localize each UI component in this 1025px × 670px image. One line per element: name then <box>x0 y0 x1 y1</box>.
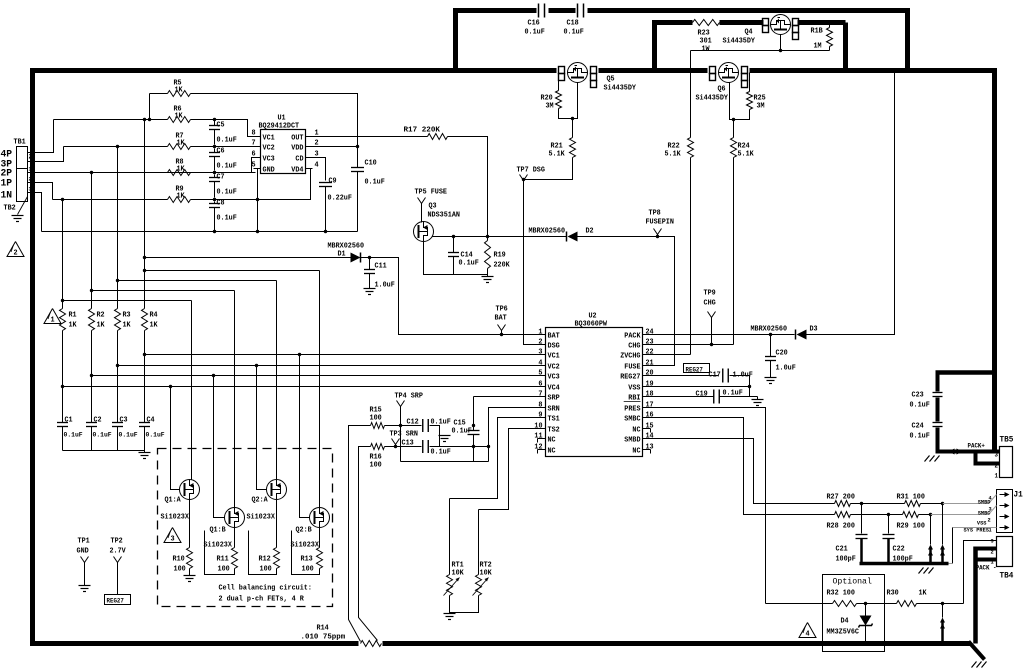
capacitor C2 <box>91 376 93 423</box>
transistor Q5 <box>568 63 588 83</box>
svg-text:SMBD: SMBD <box>978 499 991 506</box>
svg-text:Si1023X: Si1023X <box>247 514 276 522</box>
wire 1N <box>28 193 42 232</box>
svg-text:2: 2 <box>13 250 17 258</box>
svg-text:TS2: TS2 <box>548 427 560 435</box>
wire bus2 <box>91 173 93 309</box>
svg-text:NDS351AN: NDS351AN <box>428 212 461 220</box>
transistor Q1:A <box>180 480 200 500</box>
svg-text:Si1023X: Si1023X <box>161 514 190 522</box>
wire R29 drop <box>930 515 932 545</box>
svg-text:REG27: REG27 <box>107 598 125 605</box>
wire SRN to pin8 <box>489 408 538 462</box>
svg-text:R1B: R1B <box>811 28 824 36</box>
resistor R21 <box>572 119 574 138</box>
svg-text:TS1: TS1 <box>548 416 560 424</box>
capacitor C18 <box>577 4 579 18</box>
wire Q4 gate <box>780 35 782 51</box>
wire SMBD net <box>651 439 835 504</box>
svg-text:3: 3 <box>29 187 32 193</box>
pin 24 PACK <box>643 334 651 336</box>
capacitor C24 <box>933 422 943 424</box>
svg-text:CD: CD <box>295 156 303 164</box>
svg-text:0.1uF: 0.1uF <box>525 29 545 37</box>
svg-text:C9: C9 <box>329 178 337 186</box>
pin 8 <box>254 136 261 138</box>
svg-text:SMBD: SMBD <box>624 437 640 445</box>
wire VC3 row <box>92 331 538 376</box>
ground R10 <box>189 569 191 576</box>
pin 6 <box>254 157 261 159</box>
svg-text:BQ29412DCT: BQ29412DCT <box>259 123 300 131</box>
svg-text:0.22uF: 0.22uF <box>328 195 352 203</box>
wire R30 to SYS PRES <box>917 603 964 605</box>
svg-text:REG27: REG27 <box>620 374 640 382</box>
svg-text:R14: R14 <box>317 625 329 633</box>
svg-text:R32 100: R32 100 <box>827 590 855 598</box>
svg-text:0.1uF: 0.1uF <box>93 432 112 439</box>
svg-text:C18: C18 <box>567 20 579 28</box>
svg-text:TP5 FUSE: TP5 FUSE <box>415 189 448 197</box>
resistor R31 <box>905 501 921 507</box>
svg-text:MBRX02560: MBRX02560 <box>751 326 788 334</box>
svg-text:TP9: TP9 <box>704 290 716 298</box>
wire R13 return <box>292 531 320 575</box>
wire balance tap Q1B source <box>92 290 235 292</box>
svg-text:RT2: RT2 <box>480 562 492 570</box>
wire U1 VDD <box>306 146 358 148</box>
pin 13 NC <box>643 449 651 451</box>
capacitor C6 <box>214 149 216 153</box>
resistor R20 <box>558 73 560 91</box>
wire VC1 row <box>145 331 538 355</box>
svg-text:5.1K: 5.1K <box>738 151 755 159</box>
svg-text:C8: C8 <box>217 200 225 208</box>
resistor R13 <box>319 528 321 548</box>
svg-text:ZVCHG: ZVCHG <box>620 353 640 361</box>
ground chassis PACK- <box>972 662 977 668</box>
svg-text:SMBC: SMBC <box>978 510 991 517</box>
resistor R12 <box>276 500 278 548</box>
wire gate tap Q1B <box>214 376 225 518</box>
pin 7 SRP <box>538 396 546 398</box>
svg-text:NC: NC <box>548 437 556 445</box>
pin 21 FUSE <box>643 365 651 367</box>
svg-text:C21: C21 <box>836 546 848 554</box>
resistor R3 <box>115 309 121 331</box>
svg-text:0.1uF: 0.1uF <box>119 432 138 439</box>
svg-text:Optional: Optional <box>833 577 872 587</box>
svg-text:Si4435DY: Si4435DY <box>696 95 729 103</box>
svg-text:.010 75ppm: .010 75ppm <box>301 634 346 642</box>
svg-text:TP3 SRN: TP3 SRN <box>390 431 418 439</box>
pin 20 REG27 <box>643 375 651 377</box>
pin 15 NC <box>643 428 651 430</box>
transistor Q2:B <box>310 508 330 528</box>
terminal block TB4 <box>997 537 1013 567</box>
ground REG27 filter <box>752 399 764 401</box>
pin 14 SMBD <box>643 438 651 440</box>
svg-text:1: 1 <box>538 329 542 337</box>
svg-text:BAT: BAT <box>495 315 507 323</box>
resistor R24 <box>733 120 735 138</box>
svg-text:1K: 1K <box>177 166 186 174</box>
capacitor C5 <box>214 120 216 126</box>
wire gate tap Q2B <box>300 355 310 518</box>
svg-text:Si4435DY: Si4435DY <box>723 38 756 46</box>
svg-text:5.1K: 5.1K <box>665 151 682 159</box>
svg-text:VD4: VD4 <box>291 167 303 175</box>
svg-text:4: 4 <box>805 631 809 639</box>
wire REG27 row <box>651 375 719 377</box>
terminal block TB2 <box>17 169 28 202</box>
capacitor C4 <box>144 355 146 423</box>
capacitor C9 <box>319 182 332 184</box>
resistor R10 <box>189 500 191 548</box>
svg-text:VC2: VC2 <box>263 145 275 153</box>
thermistor RT1 <box>449 499 451 575</box>
svg-text:1: 1 <box>995 473 999 480</box>
svg-text:2 dual p-ch FETs, 4 R: 2 dual p-ch FETs, 4 R <box>219 596 305 604</box>
svg-text:R10: R10 <box>173 556 185 564</box>
svg-text:C14: C14 <box>461 252 473 260</box>
resistor R2 <box>89 309 95 331</box>
wire R5 output <box>191 94 358 147</box>
wire TS2 <box>479 429 538 510</box>
pin 17 PRES <box>643 407 651 409</box>
svg-text:100: 100 <box>370 462 382 470</box>
svg-text:TP6: TP6 <box>496 306 508 314</box>
svg-text:R2: R2 <box>97 312 105 320</box>
svg-text:0.1uF: 0.1uF <box>217 215 237 223</box>
svg-text:1M: 1M <box>814 43 822 51</box>
svg-text:3: 3 <box>995 452 999 459</box>
optional box <box>823 575 885 652</box>
pin 8 SRN <box>538 407 546 409</box>
svg-text:TB2: TB2 <box>4 205 16 213</box>
wire NC12 stub <box>537 450 539 454</box>
svg-text:0.1uF: 0.1uF <box>365 179 385 187</box>
svg-text:100: 100 <box>370 415 382 423</box>
pin 1 <box>306 136 313 138</box>
svg-text:0.1uF: 0.1uF <box>217 137 237 145</box>
pin 7 <box>254 146 261 148</box>
svg-text:TB4: TB4 <box>1000 572 1014 581</box>
capacitor C14 <box>453 237 455 253</box>
svg-text:TB1: TB1 <box>14 139 26 147</box>
svg-text:Q5: Q5 <box>607 76 615 84</box>
svg-text:C1: C1 <box>65 417 73 425</box>
pin 3 VC1 <box>538 354 546 356</box>
svg-text:3M: 3M <box>546 103 554 111</box>
resistor R22 <box>690 51 692 138</box>
svg-text:7: 7 <box>538 391 542 399</box>
svg-text:3: 3 <box>538 349 542 357</box>
resistor R8 <box>168 170 191 176</box>
svg-text:8: 8 <box>252 130 256 138</box>
pin 11 NC <box>538 438 546 440</box>
pin 6 VC4 <box>538 386 546 388</box>
svg-text:R25: R25 <box>754 95 766 103</box>
svg-text:R24: R24 <box>738 143 750 151</box>
svg-text:C24: C24 <box>912 423 924 431</box>
svg-text:Q4: Q4 <box>745 29 753 37</box>
svg-text:22: 22 <box>646 349 654 357</box>
svg-text:0.1uF: 0.1uF <box>146 432 165 439</box>
svg-text:Q3: Q3 <box>429 203 437 211</box>
wire NC15 stub <box>650 429 652 433</box>
svg-text:D3: D3 <box>810 326 818 334</box>
svg-text:VSS: VSS <box>628 385 640 393</box>
svg-text:MBRX02560: MBRX02560 <box>328 243 365 251</box>
wire Q3 source <box>424 242 488 275</box>
ground TP1 <box>79 585 91 587</box>
transistor Q2:A <box>267 480 287 500</box>
svg-text:VC2: VC2 <box>548 364 560 372</box>
svg-text:100: 100 <box>218 566 230 574</box>
svg-text:OUT: OUT <box>291 135 303 143</box>
capacitor C11 <box>369 258 371 270</box>
svg-text:VC3: VC3 <box>263 156 275 164</box>
svg-text:23: 23 <box>646 339 654 347</box>
resistor R19 <box>485 241 491 269</box>
svg-text:PRES: PRES <box>624 406 640 414</box>
wire U1 CD to C9 <box>313 158 326 181</box>
pin 5 <box>254 168 261 170</box>
wire VC2 row <box>118 331 538 366</box>
svg-text:C16: C16 <box>528 20 540 28</box>
wire R22 to ZVCHG pin <box>690 158 692 355</box>
svg-text:C22: C22 <box>893 546 905 554</box>
svg-text:100: 100 <box>302 566 314 574</box>
node REG27 flag <box>684 364 710 373</box>
svg-text:R28 200: R28 200 <box>827 523 855 531</box>
svg-text:1: 1 <box>29 167 32 173</box>
svg-text:CHG: CHG <box>704 300 716 308</box>
svg-text:R17 220K: R17 220K <box>404 127 441 135</box>
wire SRP sense <box>349 426 371 642</box>
transistor Q6 <box>719 63 739 83</box>
pin 1 BAT <box>538 334 546 336</box>
wire SMBC net <box>651 418 835 515</box>
svg-text:TP2: TP2 <box>111 538 123 546</box>
svg-text:1K: 1K <box>150 322 159 330</box>
svg-text:20: 20 <box>646 370 654 378</box>
pin 10 TS2 <box>538 428 546 430</box>
svg-text:1P: 1P <box>1 179 13 190</box>
wire balance tap Q2A source <box>118 280 277 282</box>
wire 2P <box>28 172 31 174</box>
pin 23 CHG <box>643 344 651 346</box>
svg-text:SRP: SRP <box>548 395 560 403</box>
wire RBI row <box>651 396 714 398</box>
svg-text:2: 2 <box>995 463 999 470</box>
wire PRES net <box>651 408 766 604</box>
warning triangle 1 <box>44 309 61 324</box>
wire PACK+ rail to TB5 <box>936 450 1000 454</box>
svg-text:C2: C2 <box>94 417 102 425</box>
wire PACK row <box>651 334 795 336</box>
svg-text:C5: C5 <box>217 122 225 130</box>
svg-text:1W: 1W <box>702 46 711 54</box>
svg-text:TP1: TP1 <box>78 538 90 546</box>
warning triangle 4 <box>799 623 816 638</box>
wire Q6 gate network <box>730 83 750 120</box>
wire SMBD mid <box>851 503 905 505</box>
ground thermistors <box>444 613 456 615</box>
wire pack- chassis <box>969 642 985 660</box>
thermistor RT2 <box>478 510 480 575</box>
svg-text:1K: 1K <box>97 322 106 330</box>
wire VSS to J1 <box>953 527 997 529</box>
wire TS1 <box>450 418 538 499</box>
svg-text:SRN: SRN <box>548 406 560 414</box>
svg-text:1N: 1N <box>1 191 13 202</box>
wire SRP to pin7 <box>474 396 538 398</box>
wire sense gnd rail <box>401 461 489 463</box>
capacitor C7 <box>214 175 216 178</box>
svg-text:2: 2 <box>29 177 32 183</box>
capacitor C16 <box>538 4 540 18</box>
wire 4P <box>28 120 54 153</box>
ground sense filter <box>440 435 445 437</box>
svg-text:C4: C4 <box>147 417 155 425</box>
resistor R15 <box>371 423 385 429</box>
svg-text:TP4 SRP: TP4 SRP <box>395 393 423 401</box>
wire TB5 pin2 feed <box>976 454 1000 464</box>
svg-text:100pF: 100pF <box>836 556 856 564</box>
wire R24 to CHG pin <box>733 158 735 345</box>
wire R30 drop to PACK- <box>942 604 944 618</box>
wire C12 to gnd loop <box>430 426 440 447</box>
wire TB4 pack- feed <box>976 547 997 551</box>
resistor R28 <box>835 512 851 518</box>
svg-text:R20: R20 <box>541 95 553 103</box>
capacitor C13 <box>422 440 424 453</box>
wire SMBC to J1 <box>919 514 931 516</box>
ground cell caps <box>139 452 151 454</box>
svg-text:TP7 DSG: TP7 DSG <box>517 167 545 175</box>
warning triangle 3 <box>164 528 181 543</box>
ground smb bus <box>919 568 924 574</box>
op-amp U2 BQ3060PW <box>546 328 643 457</box>
svg-text:4: 4 <box>315 162 319 170</box>
svg-text:C11: C11 <box>375 263 387 271</box>
pin 4 <box>306 168 313 170</box>
svg-text:R15: R15 <box>370 407 382 415</box>
wire SMBD to J1 <box>921 503 943 505</box>
svg-text:0.1uF: 0.1uF <box>431 449 451 457</box>
wire bus1 <box>62 200 64 309</box>
resistor R32 <box>766 603 833 605</box>
svg-text:1K: 1K <box>919 590 928 598</box>
capacitor C22 <box>888 515 890 534</box>
svg-text:U1: U1 <box>278 115 286 123</box>
svg-text:VC3: VC3 <box>548 374 560 382</box>
wire zener node <box>857 603 897 605</box>
svg-text:Si4435DY: Si4435DY <box>604 85 637 93</box>
pin 22 ZVCHG <box>643 354 651 356</box>
svg-text:0.1uF: 0.1uF <box>217 189 237 197</box>
pin 19 VSS <box>643 386 651 388</box>
svg-text:C7: C7 <box>217 174 225 182</box>
wire C19 right <box>720 396 758 398</box>
wire smb ground bus <box>860 562 949 566</box>
wire bus4 to D1 <box>145 257 351 259</box>
svg-text:SMBC: SMBC <box>624 416 640 424</box>
capacitor C20 <box>770 335 772 357</box>
wire R6 to U1 VC1 <box>191 120 254 137</box>
wire R8 to U1 VC3 <box>191 158 254 173</box>
svg-text:220K: 220K <box>494 262 511 270</box>
wire D1 to BAT <box>361 258 538 335</box>
svg-text:C17: C17 <box>709 372 721 380</box>
svg-text:VC4: VC4 <box>548 385 560 393</box>
svg-text:R11: R11 <box>217 556 229 564</box>
svg-text:16: 16 <box>646 412 654 420</box>
top PACK+ rail <box>456 11 537 69</box>
pin 4 VC2 <box>538 365 546 367</box>
resistor R4 <box>142 309 148 331</box>
svg-text:R29 100: R29 100 <box>897 523 925 531</box>
wire Q3 drain row <box>433 236 567 238</box>
wire D2 to TP8/FUSE <box>578 237 675 366</box>
svg-text:C12: C12 <box>407 419 419 427</box>
svg-text:1K: 1K <box>69 322 78 330</box>
wire SRP row <box>385 425 422 427</box>
svg-text:FUSEPIN: FUSEPIN <box>646 219 674 227</box>
svg-text:C20: C20 <box>776 350 788 358</box>
svg-text:C3: C3 <box>120 417 128 425</box>
resistor R7 <box>64 146 168 148</box>
svg-text:R1: R1 <box>69 312 77 320</box>
capacitor C12 <box>422 419 424 432</box>
svg-text:MBRX02560: MBRX02560 <box>529 228 566 236</box>
svg-text:301: 301 <box>700 38 712 46</box>
wire SMBC mid <box>851 514 903 516</box>
svg-text:C10: C10 <box>365 160 377 168</box>
terminal block TB1 <box>17 147 28 169</box>
wire VC4 row <box>63 331 538 387</box>
wire R17 to fuse node <box>448 137 488 241</box>
svg-text:GND: GND <box>263 167 275 175</box>
svg-text:Q2:B: Q2:B <box>296 527 313 535</box>
svg-text:R22: R22 <box>668 143 680 151</box>
wire AFE ground rail <box>42 231 358 233</box>
wire 3P <box>28 147 64 162</box>
wire R12 return <box>249 531 277 575</box>
resistor R11 <box>234 528 236 548</box>
svg-text:0.1uF: 0.1uF <box>452 428 472 436</box>
svg-text:Q1:A: Q1:A <box>165 497 182 505</box>
svg-text:VDD: VDD <box>291 145 303 153</box>
svg-text:C23: C23 <box>912 392 924 400</box>
svg-text:8: 8 <box>538 402 542 410</box>
pin 9 TS1 <box>538 417 546 419</box>
svg-text:C15: C15 <box>454 420 466 428</box>
svg-text:13: 13 <box>646 444 654 452</box>
svg-text:7: 7 <box>252 140 256 148</box>
svg-text:19: 19 <box>646 381 654 389</box>
wire VSS row <box>651 386 750 388</box>
svg-text:0.1uF: 0.1uF <box>910 402 930 410</box>
resistor R1 <box>60 309 66 331</box>
wire R7 to U1 VC2 <box>191 146 254 148</box>
svg-text:Si1023X: Si1023X <box>204 542 233 550</box>
wire R9 VD4 row <box>191 169 313 200</box>
svg-text:MM3Z5V6C: MM3Z5V6C <box>827 629 860 637</box>
svg-text:0.1uF: 0.1uF <box>217 163 237 171</box>
